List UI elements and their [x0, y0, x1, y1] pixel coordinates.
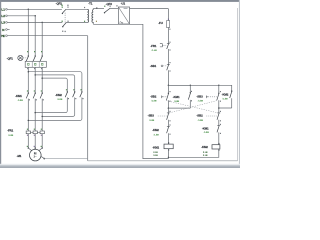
transformer T1 pin marks — [84, 7, 97, 22]
wire motor PE lead — [40, 156, 44, 159]
node junction right branch top — [218, 85, 220, 87]
pin marks FR1 — [27, 129, 42, 136]
svg-text:-FR1: -FR1 — [7, 128, 14, 132]
svg-text:/1.8B: /1.8B — [174, 100, 180, 103]
svg-text:/1.8B: /1.8B — [198, 119, 204, 122]
mechanical link SB2 dashed — [166, 101, 217, 113]
node junction L1 tap — [28, 9, 30, 11]
node junction hot rail split — [168, 85, 170, 87]
svg-text:/1.8B: /1.8B — [57, 98, 63, 101]
svg-text:2.1B: 2.1B — [203, 151, 208, 154]
breaker QF1 handle symbol — [18, 55, 27, 60]
pushbutton SB3 NC contact — [158, 108, 171, 126]
contactor KM1 pole 3 — [40, 90, 44, 100]
pushbutton SB2 NC contact — [206, 111, 221, 126]
svg-text:-QF2: -QF2 — [56, 2, 63, 6]
wire motor PE run — [44, 158, 87, 160]
svg-text:/1.8B: /1.8B — [151, 99, 157, 102]
wire L3 bus — [8, 21, 88, 23]
fuse FU — [167, 21, 170, 28]
contactor KM1 pole 1 — [26, 90, 30, 100]
svg-text:-KM1: -KM1 — [173, 95, 180, 99]
node junction right branch mid — [218, 107, 220, 109]
coil KM2 xref list — [203, 151, 208, 157]
svg-text:/1.8B: /1.8B — [198, 99, 204, 102]
node junction seal loop 1 bottom — [168, 107, 170, 109]
pushbutton SB1 symbol — [161, 62, 170, 72]
motor M1 — [30, 149, 42, 161]
node motor terminal U — [28, 147, 30, 149]
svg-text:-U1: -U1 — [121, 1, 126, 5]
overload relay FR1 heater boxes — [26, 131, 44, 134]
power supply U1 — [118, 7, 129, 24]
wire T1 secondary bottom / 0V rail — [93, 24, 168, 158]
wire KM1 outputs down — [28, 99, 42, 131]
wire L1 tap down to QF1 — [27, 9, 29, 56]
breaker QF2 pole 2 — [62, 21, 69, 32]
wire KM2 coil bottom return — [168, 149, 218, 157]
svg-text:3~: 3~ — [34, 155, 38, 159]
coil KM1 xref list — [153, 151, 158, 157]
contactor KM1 seal contact — [168, 85, 192, 108]
transformer T1 primary winding — [87, 9, 88, 22]
wire QF3 to U1 — [110, 8, 118, 10]
node junction rejoin 1 — [34, 112, 36, 114]
window chrome right edge — [239, 0, 240, 168]
wire crossing branch L1 to KM2 pole3 — [28, 72, 82, 92]
svg-text:-KM1: -KM1 — [15, 94, 22, 98]
wire KM2 output 1 rejoin — [35, 97, 67, 112]
svg-text:/1.8B: /1.8B — [18, 99, 24, 102]
breaker QF2 pole 1 — [62, 5, 69, 15]
wire PE drop — [87, 36, 89, 161]
contactor KM1 pole 2 — [33, 90, 37, 100]
svg-text:-FU: -FU — [158, 21, 163, 25]
breaker QF2 mechanical link — [64, 13, 66, 24]
wire KM2 output 2 rejoin — [42, 97, 74, 116]
node junction crossing 3 — [41, 77, 43, 79]
breaker QF1 pole 2 — [33, 51, 36, 61]
contactor KM2 NC interlock contact — [167, 124, 171, 144]
svg-text:-M1: -M1 — [17, 154, 22, 158]
svg-text:-SB2: -SB2 — [196, 113, 203, 117]
svg-text:/1.8B: /1.8B — [222, 97, 228, 100]
svg-text:-KM2: -KM2 — [152, 128, 159, 132]
node junction coil return — [168, 157, 169, 158]
pin marks QF1 outputs — [27, 68, 42, 69]
pin marks fuse — [168, 19, 171, 30]
svg-text:-T1: -T1 — [88, 1, 93, 5]
node junction rejoin 3 — [28, 120, 30, 122]
node junction seal loop 1 top — [190, 85, 192, 87]
svg-text:-QF1: -QF1 — [7, 57, 14, 61]
svg-text:/1.8B: /1.8B — [8, 134, 14, 137]
svg-text:/1.8B: /1.8B — [154, 134, 160, 137]
node junction L3 tap — [41, 22, 43, 24]
node motor terminal W — [41, 147, 43, 149]
svg-text:-KM2: -KM2 — [201, 145, 208, 149]
node junction crossing 1 — [28, 71, 30, 73]
thermal contact FR1 symbol — [160, 42, 171, 51]
svg-text:-SB3: -SB3 — [196, 94, 203, 98]
wire control hot rail upper — [167, 9, 169, 85]
wire FR1 outputs to motor — [28, 134, 42, 150]
window chrome bottom band — [0, 164, 240, 165]
svg-text:-QF3: -QF3 — [106, 2, 113, 6]
svg-text:/1.8B: /1.8B — [149, 119, 155, 122]
node motor terminal V — [34, 147, 36, 149]
wire KM1 coil bottom — [167, 149, 169, 159]
wire PE bus — [8, 35, 88, 37]
coil KM2 — [212, 143, 220, 151]
svg-text:-KM1: -KM1 — [202, 126, 209, 130]
svg-text:-SB1: -SB1 — [150, 64, 157, 68]
wire L1 bus — [8, 8, 88, 10]
node N — [2, 28, 9, 32]
contactor KM2 pole 3 — [80, 89, 84, 99]
window chrome top band — [0, 0, 240, 2]
node PE — [1, 34, 7, 38]
svg-text:-SB3: -SB3 — [148, 113, 155, 117]
node junction L2 corner — [34, 15, 36, 16]
breaker QF1 pole 3 — [40, 51, 43, 61]
node junction crossing 2 — [34, 74, 36, 76]
svg-text:N: N — [2, 28, 4, 32]
contactor KM2 seal contact — [219, 85, 233, 108]
svg-text:L3: L3 — [1, 21, 5, 25]
transformer T1 secondary winding — [92, 9, 93, 24]
wire motor leads — [28, 148, 42, 152]
svg-text:L1: L1 — [1, 8, 5, 12]
pushbutton SB3 NO contact — [206, 85, 221, 113]
node L3 — [1, 21, 7, 25]
svg-text:3.1B: 3.1B — [203, 154, 208, 157]
pin marks motor terminals — [27, 146, 42, 147]
frame right border — [237, 8, 239, 161]
wire branch feed line — [168, 84, 218, 86]
window chrome left edge — [0, 0, 1, 165]
svg-text:L2: L2 — [1, 14, 5, 18]
svg-text:/1.4B: /1.4B — [152, 49, 158, 52]
wire crossing branch L2 to KM2 pole2 — [35, 75, 74, 92]
wire T1 secondary top to QF3 — [93, 8, 104, 10]
svg-text:2.1B: 2.1B — [153, 151, 158, 154]
node L2 — [1, 14, 7, 18]
svg-text:PE: PE — [1, 34, 5, 38]
svg-text:-KM2: -KM2 — [222, 93, 229, 97]
svg-text:3.1B: 3.1B — [153, 154, 158, 157]
wire L2 bus — [8, 16, 36, 56]
breaker QF3 — [104, 6, 111, 14]
svg-text:-FR1: -FR1 — [150, 44, 157, 48]
wire crossing branch L3 to KM2 pole1 — [42, 78, 67, 92]
mechanical link SB3 dashed — [170, 101, 217, 113]
wire U1 output to control rail — [130, 8, 169, 10]
node junction rejoin 2 — [41, 116, 43, 118]
pin mark U1 input — [116, 5, 117, 6]
wire L3 tap down to QF1 — [41, 22, 43, 56]
svg-text:-KM1: -KM1 — [152, 145, 159, 149]
contactor KM2 pole 1 — [65, 89, 69, 99]
contactor KM2 pole 2 — [73, 89, 77, 99]
node junction motor PE — [44, 158, 46, 160]
wire KM2 output 3 rejoin — [28, 97, 82, 120]
node junction dot on secondary wire — [96, 7, 97, 8]
pushbutton SB2 NO contact — [162, 85, 171, 108]
frame bottom border — [88, 160, 238, 162]
contactor KM1 NC interlock contact — [217, 124, 221, 145]
svg-text:-SB2: -SB2 — [150, 94, 157, 98]
svg-text:-KM2: -KM2 — [55, 93, 62, 97]
node L1 — [1, 8, 7, 12]
breaker QF1 trip unit box — [25, 61, 46, 67]
wire QF1 outputs down — [28, 67, 42, 93]
coil KM1 — [164, 142, 173, 150]
breaker QF1 pole 1 — [26, 51, 29, 61]
svg-text:/1.8B: /1.8B — [204, 131, 210, 134]
